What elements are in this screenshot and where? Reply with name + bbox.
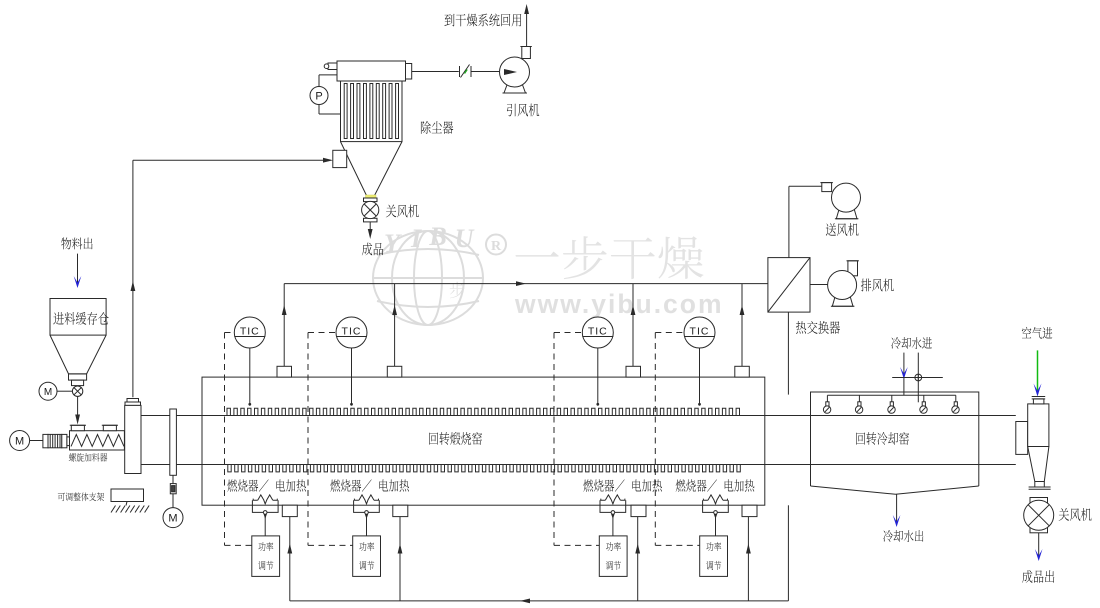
air connector box 4 bbox=[742, 505, 757, 516]
power regulator box 1 (gonglv tiaojie) bbox=[252, 536, 280, 577]
label: return to drying system bbox=[444, 14, 521, 27]
burner labels: ranshaoqi / dianjiare x4 bbox=[227, 479, 268, 491]
TIC1 sensor line into kiln bbox=[249, 348, 251, 404]
label luoxuan jialiaoqi (screw feeder) bbox=[69, 453, 108, 462]
shaft seal block bbox=[170, 409, 177, 475]
kiln tube bottom line bbox=[141, 464, 1016, 466]
label guanfengji (discharge valve) bbox=[1059, 508, 1092, 521]
label chuchenqi (dust collector) bbox=[421, 121, 453, 134]
sprinkler 2 bbox=[858, 395, 860, 402]
dashed control line group 4 bbox=[655, 332, 684, 334]
pressure gauge P bbox=[319, 74, 337, 76]
dust collector filter bags bbox=[344, 84, 398, 139]
air connector box 3 bbox=[631, 505, 646, 516]
TIC3 sensor line into kiln bbox=[597, 348, 599, 404]
product out line bbox=[1038, 533, 1040, 556]
watermark globe logo bbox=[373, 231, 483, 325]
dust collector inlet box bbox=[333, 150, 347, 167]
wire burner 1 to power regulator bbox=[264, 514, 266, 536]
power regulator box 4 (gonglv tiaojie) bbox=[700, 536, 728, 577]
air connector box 1 bbox=[282, 505, 297, 516]
burner 2 bottom terminal bbox=[365, 511, 369, 515]
burner 4 bottom terminal bbox=[714, 511, 718, 515]
burner 3 bottom terminal bbox=[611, 511, 615, 515]
screw feeder motor body bbox=[43, 434, 48, 447]
cooling water inlet label bbox=[891, 337, 932, 349]
svg-text:Y: Y bbox=[384, 229, 402, 258]
svg-text:TIC: TIC bbox=[240, 326, 260, 338]
label lengque shuichu (cooling water out) bbox=[883, 530, 923, 542]
heater teeth top row bbox=[227, 408, 740, 415]
dust collector hopper cone bbox=[341, 142, 403, 196]
kiln top nozzle 3 bbox=[626, 366, 641, 377]
label rejiaohuanqi (heat exchanger) bbox=[796, 321, 840, 334]
dust collector bag housing bbox=[341, 81, 403, 142]
sprinkler 1 bbox=[826, 395, 828, 402]
dust collector outlet cap bbox=[406, 64, 412, 80]
temperature controller TIC3 bbox=[582, 317, 613, 348]
sprinkler 4 bbox=[923, 395, 925, 402]
label paifengji bbox=[861, 279, 894, 292]
supply fan (song feng ji) bbox=[822, 183, 832, 192]
combustion air bus line bbox=[290, 600, 789, 602]
cyclone cone bbox=[1028, 447, 1049, 482]
adjustable support block bbox=[111, 489, 144, 502]
product out arrow below dust valve bbox=[369, 222, 371, 231]
cooling water inlet pipes bbox=[903, 353, 905, 396]
air riser wire 4 bbox=[747, 517, 749, 601]
svg-text:B: B bbox=[428, 222, 446, 251]
feed buffer silo bbox=[50, 299, 106, 336]
air riser wire 3 bbox=[637, 517, 639, 601]
discharge cyclone body bbox=[1028, 404, 1049, 447]
dashed control line group 2 bbox=[308, 332, 336, 334]
air riser wire 2 bbox=[399, 517, 401, 601]
riser 2 to flue duct bbox=[394, 284, 396, 367]
dust collector left nozzle bbox=[328, 63, 337, 70]
TIC4 sensor line into kiln bbox=[699, 348, 701, 404]
cyclone top cap bbox=[1033, 399, 1044, 404]
svg-text:TIC: TIC bbox=[690, 326, 710, 338]
svg-text:www.yibu.com: www.yibu.com bbox=[514, 289, 724, 319]
air connector box 2 bbox=[393, 505, 408, 516]
screw feeder trough bbox=[70, 431, 125, 450]
burner/electric heater 2 bbox=[354, 499, 359, 501]
cooling kiln V bottom bbox=[811, 486, 979, 494]
flue duct to heat exchanger bbox=[284, 283, 768, 285]
label huizhuan lengqueyao (rotary cooling kiln) bbox=[856, 432, 909, 445]
seal drive motor M bbox=[172, 494, 174, 508]
wire burner 4 to power regulator bbox=[715, 514, 717, 536]
kiln feed head cap bbox=[127, 399, 139, 403]
temperature controller TIC4 bbox=[684, 317, 715, 348]
power regulator box 2 (gonglv tiaojie) bbox=[353, 536, 381, 577]
svg-text:M: M bbox=[44, 387, 52, 398]
rotary calcining kiln shell bbox=[202, 377, 765, 505]
discharge rotary valve (guan feng ji) bbox=[1030, 498, 1048, 504]
water valve bbox=[915, 374, 922, 381]
svg-text:M: M bbox=[15, 436, 24, 448]
temperature controller TIC1 bbox=[234, 317, 265, 348]
burner/electric heater 4 bbox=[703, 499, 708, 501]
feeder inlet nozzle 1 bbox=[71, 425, 84, 430]
air in label bbox=[1022, 327, 1052, 339]
wire: ID fan outlet to drying system bbox=[526, 14, 528, 47]
induced draft fan (yin feng ji) bbox=[522, 47, 531, 59]
silo discharge motor M bbox=[39, 382, 57, 400]
screw feeder motor M bbox=[10, 431, 30, 451]
kiln feed head box bbox=[125, 405, 141, 473]
cyclone connector box bbox=[1016, 422, 1028, 455]
exhaust fan connection bbox=[810, 284, 842, 286]
material in arrow (blue) bbox=[77, 254, 79, 284]
svg-text:U: U bbox=[455, 224, 475, 253]
heat exchanger down pipe bbox=[787, 312, 789, 395]
svg-text:TIC: TIC bbox=[342, 326, 362, 338]
rotary valve under dust collector (guan feng ji) bbox=[364, 198, 378, 202]
TIC2 sensor line into kiln bbox=[351, 348, 353, 404]
sprinkler 3 bbox=[891, 395, 893, 402]
dashed control line group 3 bbox=[554, 332, 582, 334]
kiln top nozzle 1 bbox=[277, 366, 292, 377]
label chengpin (product) bbox=[362, 243, 383, 256]
burner 1 bottom terminal bbox=[263, 511, 267, 515]
cooling water drain bbox=[896, 494, 898, 522]
heater teeth bottom row bbox=[228, 465, 741, 472]
label chengpinchu (product out) bbox=[1022, 570, 1054, 583]
rotary cooling kiln shell bbox=[811, 392, 979, 486]
burner/electric heater 3 bbox=[601, 499, 606, 501]
supply fan riser bbox=[788, 186, 790, 257]
wire burner 3 to power regulator bbox=[612, 514, 614, 536]
feeder inlet nozzle 2 bbox=[103, 425, 116, 430]
label wuliao chu (material out) bbox=[61, 238, 92, 250]
kiln top nozzle 2 bbox=[387, 366, 402, 377]
silo discharge valve bbox=[72, 386, 82, 396]
heat exchanger box bbox=[768, 258, 810, 313]
label guanfengji (dust valve) bbox=[386, 205, 419, 218]
seal drive coupling bbox=[172, 475, 174, 483]
spray manifold bbox=[827, 394, 955, 396]
watermark (R) mark bbox=[486, 235, 506, 255]
riser 3 to flue duct bbox=[632, 284, 634, 367]
wire: dust collector to ID fan with line break symbol bbox=[412, 71, 459, 73]
dust collector header box bbox=[337, 61, 406, 81]
wire: valve to screw feeder inlet bbox=[77, 396, 79, 416]
label huizhuan duanshaoyao (rotary calcining kiln) bbox=[429, 432, 482, 445]
exhaust fan (pai feng ji) bbox=[848, 261, 858, 276]
riser 4 to flue duct bbox=[741, 284, 743, 367]
burner/electric heater 1 bbox=[253, 499, 258, 501]
svg-text:TIC: TIC bbox=[588, 326, 608, 338]
wire burner 2 to power regulator bbox=[366, 514, 368, 536]
watermark small char in globe bbox=[450, 282, 465, 298]
yellow mark at hopper apex bbox=[366, 195, 377, 198]
temperature controller TIC2 bbox=[336, 317, 367, 348]
dashed control line group 1 bbox=[225, 332, 235, 334]
screw flight zigzag bbox=[71, 435, 124, 447]
riser 1 to flue duct bbox=[283, 284, 285, 367]
svg-text:R: R bbox=[491, 239, 502, 254]
sprinkler 5 bbox=[955, 395, 957, 402]
svg-text:M: M bbox=[168, 513, 177, 525]
svg-text:P: P bbox=[315, 91, 322, 103]
label yinfengji (ID fan) bbox=[507, 104, 539, 117]
kiln tube top line bbox=[141, 415, 1016, 417]
label songfengji bbox=[826, 223, 859, 236]
svg-text:I: I bbox=[410, 224, 422, 253]
kiln top nozzle 4 bbox=[735, 366, 750, 377]
watermark text yibu drying bbox=[515, 236, 703, 279]
label jinliao huancuncang (feed buffer silo) bbox=[53, 312, 108, 325]
adjustable support label bbox=[58, 492, 104, 501]
wire: kiln feed head exhaust duct up and right to dust collector bbox=[132, 160, 134, 397]
power regulator box 3 (gonglv tiaojie) bbox=[599, 536, 627, 577]
air riser wire 1 bbox=[289, 517, 291, 601]
air in green line bbox=[1037, 350, 1039, 394]
